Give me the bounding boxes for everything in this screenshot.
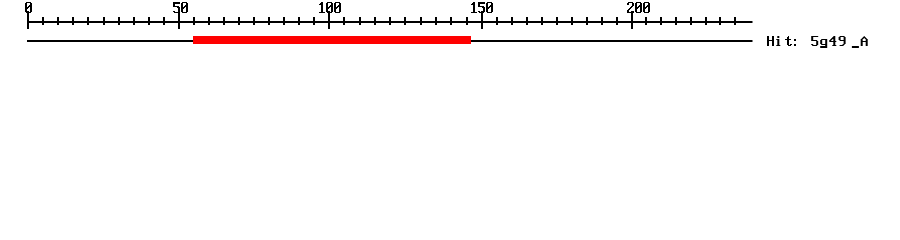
ruler label 150 <box>471 2 493 13</box>
ruler minor ticks <box>42 17 736 25</box>
hit label <box>767 36 868 48</box>
ruler major ticks <box>27 11 633 29</box>
query line <box>27 40 753 42</box>
hit bar (red) <box>193 36 471 44</box>
ruler label 50 <box>173 2 188 13</box>
ruler label 200 <box>627 2 650 13</box>
ruler axis line <box>27 21 753 23</box>
ruler label 100 <box>319 2 341 13</box>
ruler label 0 <box>25 2 32 13</box>
